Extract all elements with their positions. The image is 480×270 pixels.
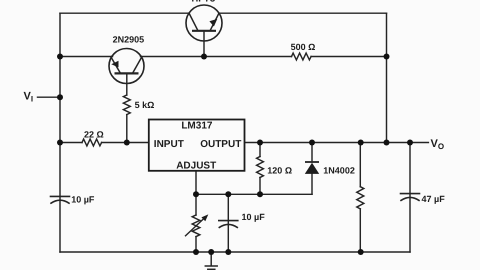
wire 10uF adjust cap lead	[227, 194, 229, 252]
IC U1 LM317 box	[149, 120, 245, 171]
svg-text:22 Ω: 22 Ω	[84, 130, 104, 140]
capacitor C1 10uF plates	[51, 195, 70, 197]
diode D1 1N4002 symbol	[305, 162, 319, 174]
node 10uF adjust top	[225, 191, 231, 197]
wire 47uF lead	[409, 143, 411, 253]
node diode top	[309, 140, 315, 146]
node TIP73 base / rail	[201, 54, 207, 60]
wire top rail left segment	[60, 12, 189, 14]
node 10uF adjust bottom	[225, 249, 231, 255]
potentiometer top lead	[195, 194, 197, 215]
wire second rail left (2N2905 emitter to left rail)	[60, 56, 113, 58]
svg-text:ADJUST: ADJUST	[176, 161, 216, 172]
svg-text:500 Ω: 500 Ω	[291, 42, 316, 52]
capacitor C2 10uF adjust plates	[219, 220, 238, 222]
node pot bottom	[193, 249, 199, 255]
wire adjust rail	[196, 193, 312, 195]
wire 120 ohm bottom lead	[259, 178, 261, 195]
svg-text:47 µF: 47 µF	[422, 194, 446, 204]
node divider resistor bottom	[358, 249, 364, 255]
node left rail / input row	[57, 140, 63, 146]
node divider resistor top	[358, 140, 364, 146]
node right vertical / 500 ohm rail	[384, 54, 390, 60]
svg-text:LM317: LM317	[181, 121, 213, 132]
potentiometer arrow	[185, 214, 208, 236]
node adjust pin junction	[193, 191, 199, 197]
svg-text:OUTPUT: OUTPUT	[200, 139, 241, 150]
node Vi junction	[57, 94, 63, 100]
wire left vertical rail	[59, 13, 61, 252]
resistor 22 ohm	[82, 139, 102, 146]
wire Vi stub	[38, 96, 61, 98]
resistor output divider (unlabeled)	[357, 187, 364, 209]
wire LM317 adjust pin	[195, 171, 197, 195]
svg-text:TIP73: TIP73	[190, 0, 215, 5]
svg-text:5 kΩ: 5 kΩ	[135, 100, 155, 110]
transistor Q1 2N2905 base lead vertical	[126, 73, 128, 95]
svg-text:10 µF: 10 µF	[242, 212, 266, 222]
wire 22 ohm to LM317 INPUT	[102, 142, 149, 144]
node left rail / emitter row	[57, 54, 63, 60]
resistor output divider top lead	[359, 143, 361, 187]
ground bars	[205, 265, 217, 267]
node 120 ohm top	[257, 140, 263, 146]
wire LM317 output row	[245, 142, 429, 144]
resistor 500 ohm	[292, 53, 312, 60]
wire 120 ohm top lead	[259, 143, 261, 157]
node right vertical / output row	[384, 140, 390, 146]
svg-text:1N4002: 1N4002	[323, 165, 355, 175]
wire input row (left rail to 22 ohm)	[60, 142, 82, 144]
transistor Q2 TIP73	[186, 5, 222, 41]
diode D1 1N4002 leads	[311, 143, 313, 163]
node ground junction	[208, 249, 214, 255]
wire right vertical	[386, 13, 388, 142]
capacitor C3 47uF plates	[401, 193, 420, 195]
node 120 ohm bottom	[257, 191, 263, 197]
node 5k / input row	[124, 140, 130, 146]
svg-text:INPUT: INPUT	[154, 139, 184, 150]
resistor output divider bottom lead	[359, 209, 361, 252]
svg-text:120 Ω: 120 Ω	[267, 165, 292, 175]
transistor Q1 2N2905	[109, 49, 144, 84]
transistor Q2 TIP73 base lead vertical	[203, 31, 205, 57]
ground stem	[210, 252, 212, 266]
wire 5 kohm to input row	[126, 115, 128, 143]
wire second rail right (500 ohm to right vertical)	[311, 56, 386, 58]
svg-text:2N2905: 2N2905	[113, 35, 145, 45]
svg-text:10 µF: 10 µF	[71, 195, 95, 205]
resistor 5 kohm	[123, 95, 130, 115]
node dots	[57, 54, 413, 256]
potentiometer bottom lead	[195, 237, 197, 252]
potentiometer zigzag	[192, 215, 200, 237]
wire top rail right segment	[219, 12, 387, 14]
resistor 120 ohm	[257, 157, 264, 178]
wire bottom rail	[60, 251, 410, 253]
wire second rail middle (2N2905 collector to 500 ohm)	[141, 56, 292, 58]
node 47uF top	[407, 140, 413, 146]
